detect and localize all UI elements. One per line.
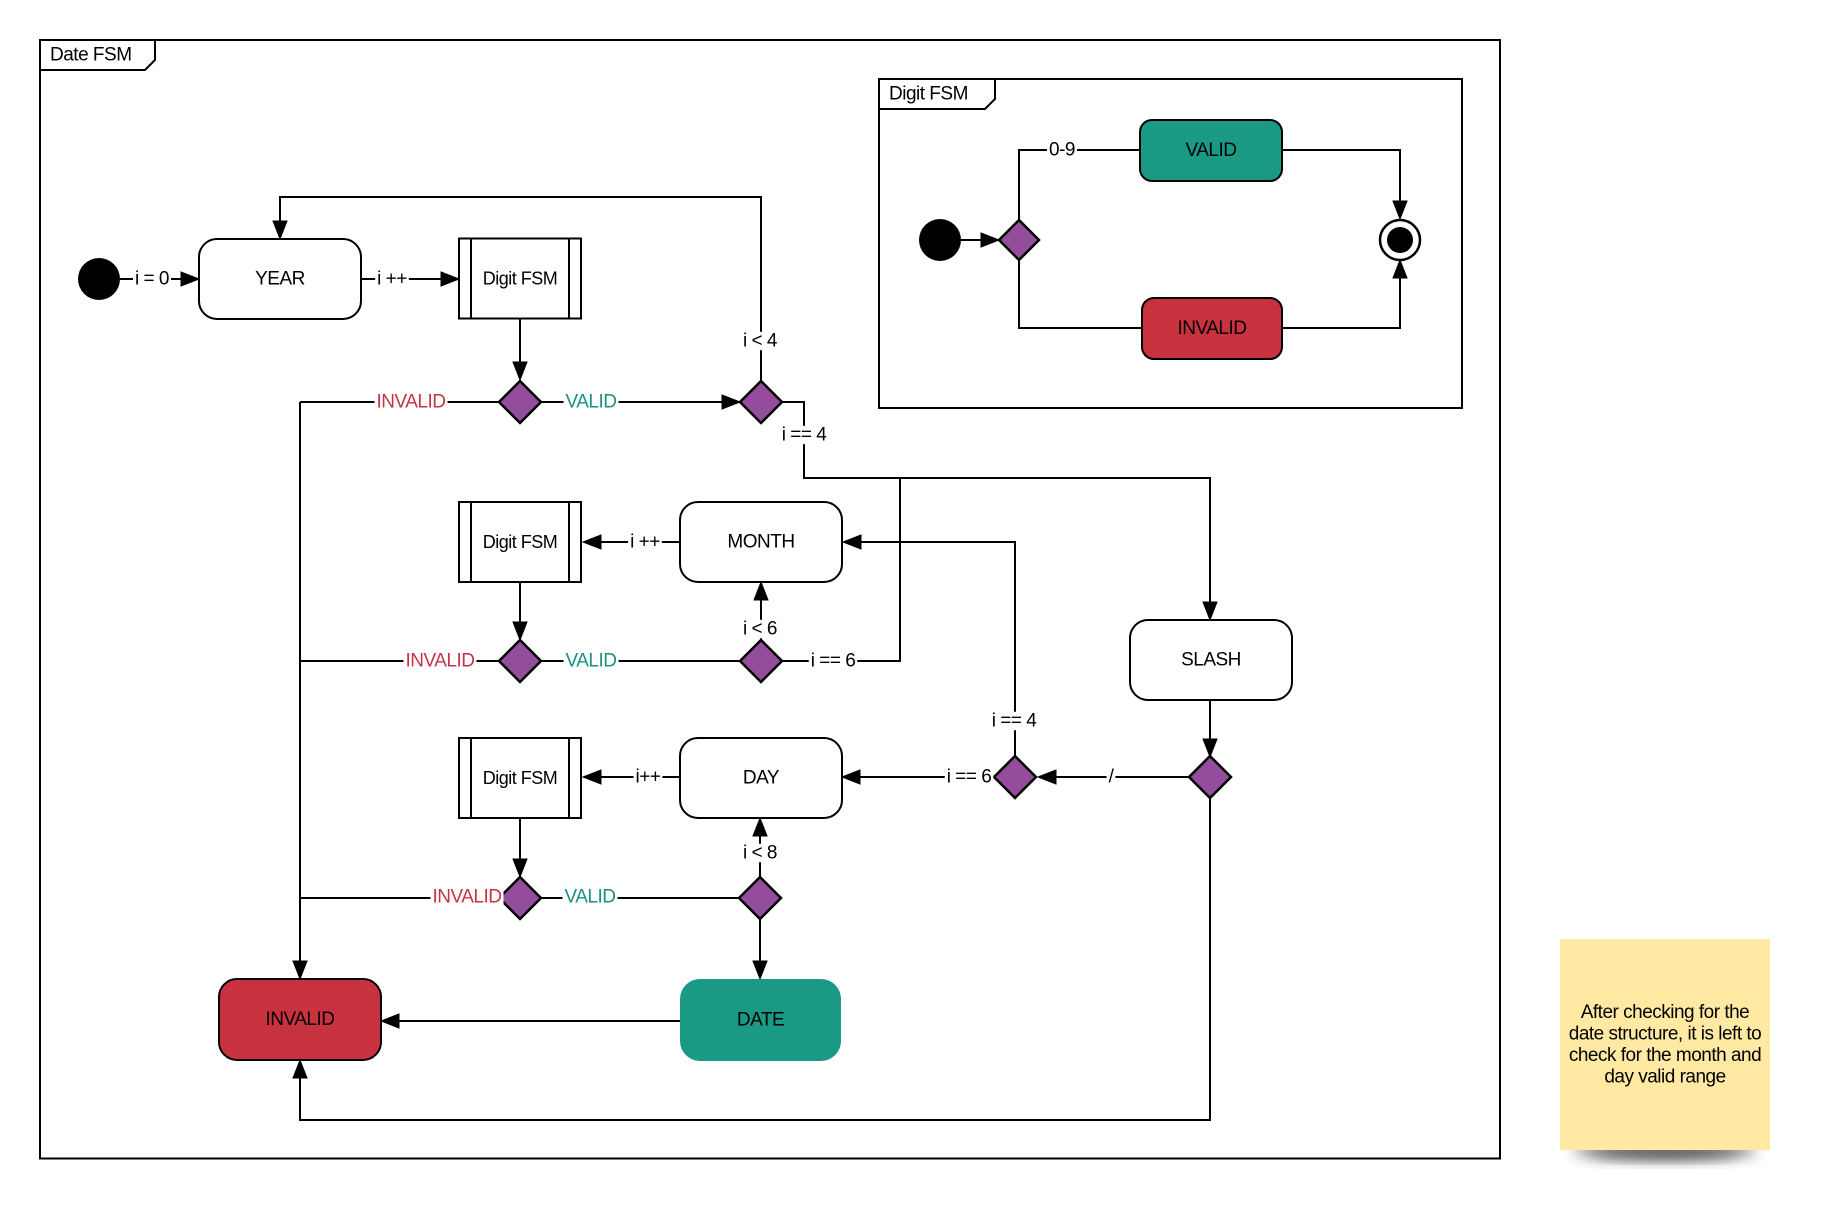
svg-text:SLASH: SLASH bbox=[1181, 650, 1241, 671]
edge VALID row1 bbox=[541, 392, 740, 413]
svg-text:day valid range: day valid range bbox=[1604, 1067, 1725, 1088]
svg-text:Digit FSM: Digit FSM bbox=[483, 269, 558, 289]
svg-text:VALID: VALID bbox=[564, 887, 615, 908]
initial state (Digit FSM) bbox=[919, 219, 961, 261]
subprocess Digit FSM 3 bbox=[459, 738, 581, 818]
edge SLASH to choice bbox=[1203, 700, 1217, 757]
sticky note bbox=[1560, 939, 1770, 1160]
svg-text:INVALID: INVALID bbox=[265, 1009, 334, 1030]
choice diamond row1 right bbox=[740, 381, 782, 423]
edge 0-9 to VALID bbox=[1019, 140, 1140, 221]
svg-text:i == 4: i == 4 bbox=[782, 425, 827, 446]
svg-text:i = 0: i = 0 bbox=[135, 269, 169, 290]
svg-text:INVALID: INVALID bbox=[1177, 318, 1246, 339]
edge Digit FSM 2 to choice bbox=[513, 582, 527, 640]
state SLASH bbox=[1130, 620, 1292, 700]
svg-text:check for the month and: check for the month and bbox=[1569, 1045, 1761, 1066]
svg-text:i < 4: i < 4 bbox=[743, 331, 778, 352]
subprocess Digit FSM 1 bbox=[459, 239, 581, 319]
edge i < 8 to DAY bbox=[741, 818, 779, 877]
state DATE bbox=[680, 979, 841, 1061]
edge start to choice (Digit FSM) bbox=[960, 233, 999, 247]
edge choice to DATE bbox=[753, 919, 767, 979]
edge i++ (DAY) bbox=[583, 767, 680, 788]
svg-text:DAY: DAY bbox=[743, 768, 780, 789]
edge i == 4 riser to MONTH bbox=[843, 535, 1038, 757]
edge INVALID row2 bbox=[300, 651, 499, 672]
state YEAR bbox=[199, 239, 361, 319]
svg-text:i == 4: i == 4 bbox=[992, 711, 1037, 732]
svg-text:YEAR: YEAR bbox=[255, 269, 305, 290]
svg-text:i ++: i ++ bbox=[630, 532, 660, 553]
svg-text:INVALID: INVALID bbox=[432, 887, 501, 908]
edge VALID to final bbox=[1282, 150, 1407, 219]
subprocess Digit FSM 2 bbox=[459, 502, 581, 582]
svg-text:After checking for the: After checking for the bbox=[1581, 1002, 1750, 1023]
choice diamond row1 left bbox=[499, 381, 541, 423]
svg-text:i == 6: i == 6 bbox=[947, 767, 992, 788]
edge i ++ (MONTH) bbox=[583, 532, 680, 553]
svg-text:VALID: VALID bbox=[565, 651, 616, 672]
svg-text:i < 6: i < 6 bbox=[743, 619, 777, 640]
state INVALID (Digit FSM) bbox=[1142, 298, 1282, 359]
svg-text:Digit FSM: Digit FSM bbox=[483, 768, 558, 788]
edge Digit FSM 1 to choice bbox=[513, 319, 527, 381]
edge return to INVALID bottom bbox=[293, 798, 1210, 1120]
svg-text:i < 8: i < 8 bbox=[743, 843, 777, 864]
edge Digit FSM 3 to choice bbox=[513, 818, 527, 877]
state VALID (Digit FSM) bbox=[1140, 120, 1282, 181]
edge invalid collector bbox=[293, 402, 307, 979]
edge i < 4 loop to YEAR bbox=[273, 197, 779, 381]
edge i == 6 to DAY bbox=[842, 767, 994, 788]
svg-text:date structure, it is left to: date structure, it is left to bbox=[1569, 1024, 1761, 1045]
edge i == 4 to SLASH bbox=[780, 402, 1217, 620]
initial state (main) bbox=[78, 258, 120, 300]
final state (Digit FSM) bbox=[1380, 220, 1420, 260]
edge DATE to INVALID bbox=[381, 1014, 680, 1028]
edge i < 6 to MONTH bbox=[741, 582, 779, 640]
choice diamond row2 left bbox=[499, 640, 541, 682]
state DAY bbox=[680, 738, 842, 818]
svg-text:0-9: 0-9 bbox=[1049, 140, 1075, 161]
svg-text:MONTH: MONTH bbox=[727, 532, 794, 553]
edge i == 6 to rail bbox=[782, 478, 900, 672]
edge VALID row2 bbox=[541, 651, 740, 672]
svg-text:DATE: DATE bbox=[737, 1010, 784, 1031]
svg-text:i == 6: i == 6 bbox=[811, 651, 856, 672]
edge choice to INVALID (Digit FSM) bbox=[1019, 260, 1142, 328]
edge INVALID row3 bbox=[300, 887, 504, 908]
edge INVALID row1 bbox=[300, 392, 499, 413]
svg-text:i ++: i ++ bbox=[377, 269, 407, 290]
svg-text:INVALID: INVALID bbox=[405, 651, 474, 672]
svg-text:VALID: VALID bbox=[565, 392, 616, 413]
edge INVALID to final bbox=[1282, 260, 1407, 328]
svg-text:Digit FSM: Digit FSM bbox=[889, 84, 968, 105]
choice diamond (Digit FSM) bbox=[999, 220, 1039, 260]
choice diamond after slash bbox=[994, 756, 1036, 798]
edge slash char bbox=[1038, 767, 1189, 788]
frame Digit FSM bbox=[879, 79, 1462, 408]
edge VALID row3 bbox=[541, 887, 739, 908]
svg-text:i++: i++ bbox=[636, 767, 661, 788]
choice diamond row3 left bbox=[499, 877, 541, 919]
state INVALID (main) bbox=[219, 979, 381, 1060]
edge i ++ (YEAR) bbox=[361, 269, 459, 290]
choice diamond row3 right bbox=[739, 877, 781, 919]
svg-text:VALID: VALID bbox=[1185, 140, 1236, 161]
svg-text:Digit FSM: Digit FSM bbox=[483, 532, 558, 552]
svg-text:Date FSM: Date FSM bbox=[50, 45, 132, 66]
edge i = 0 bbox=[120, 269, 199, 290]
frame Date FSM bbox=[40, 40, 1500, 1159]
state MONTH bbox=[680, 502, 842, 582]
choice diamond below SLASH bbox=[1189, 756, 1231, 798]
svg-text:INVALID: INVALID bbox=[376, 392, 445, 413]
choice diamond row2 right bbox=[740, 640, 782, 682]
